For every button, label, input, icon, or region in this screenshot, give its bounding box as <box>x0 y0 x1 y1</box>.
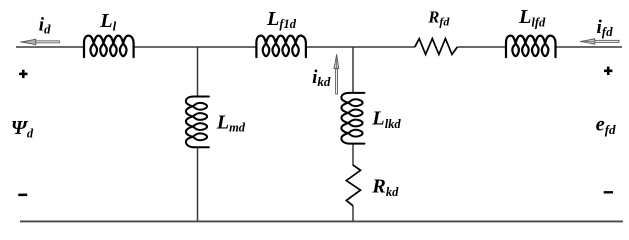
wire Lmd down to bottom rail <box>197 148 199 222</box>
wire top-right segment <box>556 46 622 48</box>
current arrow ikd (points up) <box>334 54 339 94</box>
current arrow id (points left) <box>20 39 59 45</box>
svg-text:Ψd: Ψd <box>11 117 34 140</box>
svg-text:Lf1d: Lf1d <box>266 8 297 31</box>
wire node B down to Llkd <box>352 47 354 93</box>
svg-text:Lmd: Lmd <box>216 111 246 134</box>
svg-text:ikd: ikd <box>312 67 331 89</box>
resistor Rkd <box>346 165 360 206</box>
wire between Ll and node A <box>134 46 256 48</box>
inductor Lf1d <box>256 36 306 58</box>
svg-text:Llkd: Llkd <box>371 108 401 131</box>
svg-text:ifd: ifd <box>597 17 614 39</box>
inductor Llfd <box>506 36 556 58</box>
svg-text:Llfd: Llfd <box>518 6 546 29</box>
svg-text:efd: efd <box>596 114 616 137</box>
inductor Ll <box>84 36 134 58</box>
inductor Llkd <box>341 93 364 144</box>
plus sign left <box>19 70 27 78</box>
minus sign left <box>18 194 27 197</box>
plus sign right <box>604 67 612 75</box>
resistor Rfd <box>415 39 458 55</box>
wire Llkd down to Rkd <box>352 144 354 166</box>
inductor Lmd <box>186 97 209 148</box>
wire between Rfd and Llfd <box>457 46 505 48</box>
wire node A down to Lmd <box>197 47 199 96</box>
wire Rkd down to bottom rail <box>352 206 354 222</box>
svg-text:Rfd: Rfd <box>427 8 450 29</box>
wire top-left segment <box>16 46 84 48</box>
wire between Lf1d and Rfd through node B <box>306 46 415 48</box>
svg-text:Rkd: Rkd <box>371 176 399 199</box>
svg-text:Ll: Ll <box>99 10 116 33</box>
current arrow ifd (points left) <box>580 39 619 45</box>
minus sign right <box>604 191 613 193</box>
bottom rail wire <box>20 220 623 222</box>
svg-text:id: id <box>39 15 51 37</box>
